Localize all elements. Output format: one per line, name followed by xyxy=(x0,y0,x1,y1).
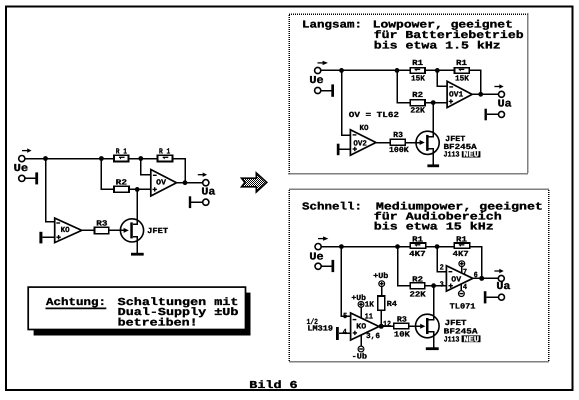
svg-text:OV = TL62: OV = TL62 xyxy=(349,111,400,120)
label Achtung heading xyxy=(46,297,107,309)
node L output arrow xyxy=(494,84,503,88)
svg-text:100K: 100K xyxy=(389,146,409,155)
svg-text:BF245A: BF245A xyxy=(444,143,478,152)
svg-text:KO: KO xyxy=(61,226,70,235)
svg-text:22K: 22K xyxy=(410,290,427,299)
svg-text:R2: R2 xyxy=(116,179,128,188)
svg-text:15K: 15K xyxy=(411,74,425,83)
svg-text:R1: R1 xyxy=(412,235,423,244)
svg-text:OV: OV xyxy=(451,275,461,284)
ground at L JFET source xyxy=(427,164,439,167)
node S junction C xyxy=(435,244,440,249)
svg-text:R3: R3 xyxy=(96,219,108,228)
terminal L Ua ground xyxy=(499,111,505,117)
svg-text:Schnell:: Schnell: xyxy=(302,201,362,213)
terminal Ue xyxy=(19,156,25,162)
node L junction B xyxy=(395,68,400,73)
node S junction B xyxy=(395,244,400,249)
resistor S R2 xyxy=(410,283,425,289)
terminal S Ue ground xyxy=(315,263,321,269)
wire R2 to OV plus xyxy=(129,188,151,190)
wire L B down to R2 xyxy=(397,70,410,102)
svg-text:R2: R2 xyxy=(412,275,423,284)
ground at Ue xyxy=(25,172,38,184)
svg-text:10K: 10K xyxy=(394,331,410,340)
svg-text:NEU: NEU xyxy=(463,151,479,160)
svg-text:bis etwa 15 kHz: bis etwa 15 kHz xyxy=(374,222,494,234)
terminal L Ue ground xyxy=(315,87,321,93)
wire L top rail xyxy=(321,69,411,71)
resistor R2 left xyxy=(114,186,129,192)
svg-text:R2: R2 xyxy=(412,91,423,100)
resistor L R3 xyxy=(390,139,405,145)
terminal Ua xyxy=(203,180,209,186)
supply plus pin 7 xyxy=(459,261,465,273)
svg-text:J113: J113 xyxy=(444,336,460,345)
wire KO out to R3 xyxy=(82,229,95,231)
wire S between R1a R1b xyxy=(426,246,454,248)
svg-text:Ue: Ue xyxy=(14,163,28,175)
wire L R2 to OV1 plus xyxy=(425,102,447,104)
svg-text:NEU: NEU xyxy=(464,336,480,345)
wire S B down to R2 xyxy=(398,247,411,286)
svg-text:OV1: OV1 xyxy=(449,91,464,100)
svg-text:JFET: JFET xyxy=(445,319,467,328)
wire S R1b to feedback xyxy=(470,247,482,279)
node junction E feedback xyxy=(183,180,188,185)
dashed frame Langsam xyxy=(289,14,528,174)
node S junction A xyxy=(339,244,344,249)
ground at S KO plus xyxy=(336,327,351,340)
transistor L JFET xyxy=(416,103,439,165)
svg-text:Ua: Ua xyxy=(496,281,511,293)
svg-text:5: 5 xyxy=(343,312,347,321)
resistor S R1a xyxy=(410,243,426,248)
svg-text:Ue: Ue xyxy=(309,75,323,87)
ground at S Ua xyxy=(484,291,499,303)
svg-text:betreiben!: betreiben! xyxy=(118,317,198,329)
svg-text:Langsam:: Langsam: xyxy=(302,20,362,32)
label L J113 NEU xyxy=(444,151,481,160)
svg-text:BF245A: BF245A xyxy=(444,327,478,336)
transistor Q JFET left xyxy=(120,189,143,252)
node junction KO out xyxy=(379,324,384,329)
terminal Ua ground xyxy=(203,199,209,205)
resistor L R1a xyxy=(410,68,425,74)
svg-text:OV2: OV2 xyxy=(353,139,367,148)
svg-text:TL071: TL071 xyxy=(450,302,476,311)
terminal S Ue xyxy=(315,244,321,250)
svg-text:6: 6 xyxy=(474,271,478,280)
wire L C to OV1 minus xyxy=(437,70,447,86)
node junction B xyxy=(99,156,104,161)
resistor R3 left xyxy=(95,227,109,233)
wire R1b to feedback xyxy=(173,159,186,183)
note box Achtung xyxy=(28,287,245,329)
svg-text:R1: R1 xyxy=(456,59,467,68)
resistor L R2 xyxy=(410,100,425,106)
transistor S JFET xyxy=(416,286,440,348)
svg-text:+Ub: +Ub xyxy=(373,272,389,281)
node junction D drain xyxy=(135,187,140,192)
node L junction drain xyxy=(431,100,436,105)
node junction A xyxy=(43,156,48,161)
comparator OV2 xyxy=(350,130,376,155)
wire R4 to KO out node xyxy=(380,310,382,326)
svg-text:JFET: JFET xyxy=(147,227,168,236)
wire A to KO minus xyxy=(46,159,55,222)
wire R3 to gate xyxy=(109,229,121,231)
svg-text:R3: R3 xyxy=(393,131,403,140)
supply minus KO pins36 xyxy=(358,335,364,352)
ground at L Ue xyxy=(321,84,334,96)
svg-text:OV: OV xyxy=(156,179,166,188)
svg-text:Bild 6: Bild 6 xyxy=(249,380,297,392)
ground at Ua xyxy=(189,196,203,208)
wire L R1b to feedback xyxy=(469,70,481,94)
node L junction A xyxy=(339,68,344,73)
svg-text:R1: R1 xyxy=(412,59,423,68)
label S J113 NEU xyxy=(444,335,481,344)
node L input arrow xyxy=(318,61,328,65)
supply plus KO pin11 xyxy=(358,302,364,318)
op-amp OV1 xyxy=(447,81,472,107)
resistor R4 xyxy=(378,296,385,310)
supply plus R4 xyxy=(379,281,385,296)
ground at OV2 plus xyxy=(337,144,351,156)
terminal L Ue xyxy=(315,67,321,73)
svg-text:JFET: JFET xyxy=(445,135,465,144)
svg-text:LM319: LM319 xyxy=(307,325,333,334)
terminal S Ua ground xyxy=(499,294,505,300)
wire S A to KO minus xyxy=(341,247,350,317)
wire C to OV minus xyxy=(141,159,151,175)
ground at S Ue xyxy=(321,260,334,272)
wire S OV output xyxy=(473,277,499,279)
svg-text:R3: R3 xyxy=(397,315,407,324)
op-amp OV TL071 xyxy=(446,266,472,292)
wire S C to OV minus xyxy=(437,247,446,272)
svg-text:-Ub: -Ub xyxy=(352,353,368,362)
svg-text:22K: 22K xyxy=(410,107,425,116)
node S junction out xyxy=(479,276,484,281)
svg-text:Ua: Ua xyxy=(201,186,216,198)
wire L KO out to R3 xyxy=(376,142,391,144)
svg-text:7: 7 xyxy=(463,268,467,277)
svg-text:1K: 1K xyxy=(365,301,375,310)
svg-text:J113: J113 xyxy=(444,151,460,160)
wire between R1a and R1b xyxy=(129,158,158,160)
wire top rail xyxy=(25,158,114,160)
ground at KO plus xyxy=(39,232,54,244)
node S junction drain xyxy=(431,283,436,288)
ground at JFET source xyxy=(131,253,144,256)
node L junction out xyxy=(478,92,483,97)
svg-text:3: 3 xyxy=(440,280,444,289)
svg-text:R 1: R 1 xyxy=(116,147,128,156)
wire S R3 to gate xyxy=(409,325,417,327)
svg-text:Achtung:: Achtung: xyxy=(46,297,106,309)
wire S R2 to OV plus xyxy=(425,285,447,287)
op-amp OV left xyxy=(151,170,177,197)
node Ua output arrow xyxy=(198,173,207,177)
svg-text:15K: 15K xyxy=(455,74,469,83)
wire OV output xyxy=(177,182,203,184)
node S input arrow xyxy=(318,236,328,240)
svg-text:Ua: Ua xyxy=(498,98,513,110)
node Ue input arrow xyxy=(22,148,32,152)
node L junction C xyxy=(435,68,440,73)
svg-text:bis etwa 1.5 kHz: bis etwa 1.5 kHz xyxy=(374,41,501,53)
svg-text:4K7: 4K7 xyxy=(409,250,426,259)
svg-text:12: 12 xyxy=(383,320,391,329)
node S output arrow xyxy=(494,269,503,273)
resistor S R1b xyxy=(454,243,470,248)
svg-text:3,6: 3,6 xyxy=(366,332,380,341)
terminal S Ua xyxy=(498,275,504,281)
dashed frame Schnell xyxy=(289,189,548,361)
comparator KO left xyxy=(55,218,82,243)
wire L R3 to gate xyxy=(405,142,417,144)
resistor R1 left-a xyxy=(114,155,129,161)
resistor R1 left-b xyxy=(158,155,173,161)
node junction C xyxy=(138,156,143,161)
big block arrow xyxy=(242,173,267,192)
comparator KO LM319 xyxy=(351,313,379,340)
terminal Ue ground xyxy=(19,175,25,181)
wire L OV1 output xyxy=(472,93,498,95)
resistor L R1b xyxy=(455,68,470,74)
svg-text:R4: R4 xyxy=(387,300,398,309)
note box shadow xyxy=(34,293,251,336)
ground at S JFET source xyxy=(426,347,439,350)
terminal L Ua xyxy=(499,91,505,97)
svg-text:2: 2 xyxy=(440,264,444,273)
wire L between R1a R1b xyxy=(425,69,455,71)
wire B down to R2 xyxy=(101,159,114,190)
svg-text:Ue: Ue xyxy=(309,251,323,263)
wire S top rail xyxy=(321,246,410,248)
wire L A to KO minus xyxy=(342,70,351,135)
svg-text:R1: R1 xyxy=(456,235,467,244)
supply minus pin 4 xyxy=(459,284,465,296)
svg-text:4K7: 4K7 xyxy=(453,250,469,259)
svg-text:4: 4 xyxy=(463,283,467,292)
svg-text:KO: KO xyxy=(360,124,369,133)
wire S KO out to R3 xyxy=(379,325,394,327)
svg-text:R 1: R 1 xyxy=(159,147,171,156)
svg-text:KO: KO xyxy=(356,323,366,332)
resistor S R3 xyxy=(394,323,409,328)
ground at L Ua xyxy=(485,109,499,121)
